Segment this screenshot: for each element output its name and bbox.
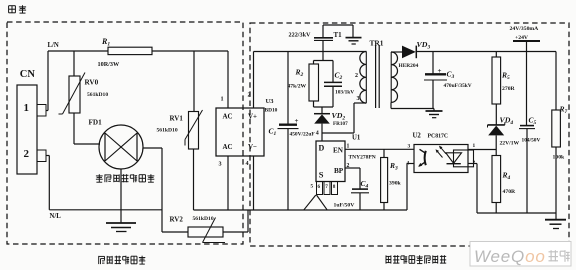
bridge rectifier U3 — [216, 92, 278, 168]
capacitor C2 — [324, 61, 354, 108]
svg-text:BP: BP — [334, 167, 344, 175]
node N/L label — [50, 213, 62, 220]
svg-text:C4: C4 — [361, 179, 369, 190]
svg-text:AC: AC — [223, 113, 233, 121]
svg-text:1: 1 — [347, 144, 350, 150]
svg-text:U3: U3 — [266, 98, 275, 105]
svg-text:V+: V+ — [248, 113, 257, 121]
svg-text:390k: 390k — [389, 181, 402, 187]
ground for FD1 — [106, 169, 136, 232]
svg-text:D: D — [319, 144, 325, 153]
svg-text:C1: C1 — [269, 127, 277, 138]
resistor R1 — [98, 37, 153, 68]
svg-text:103/1kV: 103/1kV — [335, 90, 354, 96]
svg-text:3: 3 — [408, 144, 411, 150]
wire TR1 pin3 to drain node — [322, 103, 366, 133]
svg-text:T1: T1 — [334, 31, 343, 39]
svg-text:V−: V− — [248, 143, 257, 151]
output terminal +24V — [510, 26, 541, 52]
varistor RV0 — [59, 51, 109, 144]
varistor RV2 — [162, 148, 248, 243]
svg-text:N/L: N/L — [50, 213, 62, 220]
svg-text:BD10: BD10 — [265, 108, 278, 114]
svg-text:+: + — [295, 117, 299, 125]
lightning-protection section dashed border box — [7, 22, 243, 244]
svg-text:AC: AC — [223, 143, 233, 151]
svg-text:RV1: RV1 — [170, 115, 184, 123]
svg-text:R7: R7 — [559, 105, 568, 116]
svg-text:450V/22uF: 450V/22uF — [290, 132, 316, 138]
svg-text:VD2: VD2 — [332, 111, 346, 122]
svg-text:8: 8 — [333, 184, 336, 190]
svg-text:4: 4 — [316, 131, 319, 137]
svg-text:5: 5 — [311, 184, 314, 190]
svg-text:561kD10: 561kD10 — [87, 92, 108, 98]
svg-text:104/50V: 104/50V — [522, 138, 541, 144]
wire CN pin2 to N bottom rail — [46, 156, 162, 210]
IC U1 TNY278PN — [316, 135, 376, 182]
wire primary + rail — [254, 51, 367, 53]
svg-text:3: 3 — [219, 161, 222, 168]
svg-text:100k: 100k — [553, 155, 566, 161]
svg-text:R4: R4 — [502, 171, 511, 182]
svg-text:TR1: TR1 — [370, 39, 384, 48]
diode VD3 HER204 — [391, 40, 430, 69]
wire secondary return — [391, 103, 434, 109]
svg-text:24V/350mA: 24V/350mA — [510, 26, 540, 32]
wire opto pin2 drop — [468, 164, 477, 214]
svg-text:PC817C: PC817C — [428, 134, 449, 140]
svg-text:7: 7 — [325, 184, 328, 190]
svg-text:S: S — [319, 170, 324, 180]
switching-supply section dashed border box — [250, 23, 569, 246]
svg-text:RV2: RV2 — [170, 216, 184, 224]
svg-text:VD4: VD4 — [500, 116, 514, 127]
svg-text:HER204: HER204 — [399, 63, 419, 69]
svg-text:C5: C5 — [529, 116, 537, 127]
U1 source fanout wires — [304, 195, 327, 210]
snubber junction wires — [314, 52, 334, 108]
svg-text:222/3kV: 222/3kV — [289, 32, 312, 39]
ground secondary bottom — [545, 213, 566, 229]
svg-text:2: 2 — [248, 92, 251, 99]
svg-text:L/N: L/N — [48, 42, 59, 49]
optocoupler U2 PC817C — [407, 133, 476, 173]
primary bottom rail wire — [194, 209, 408, 211]
svg-text:1: 1 — [221, 96, 224, 103]
wire L top rail — [48, 50, 228, 52]
svg-text:U2: U2 — [413, 133, 422, 140]
svg-text:3: 3 — [357, 96, 360, 102]
U1 source pin stubs 5678 — [311, 182, 338, 195]
svg-text:C2: C2 — [335, 71, 343, 82]
svg-text:CN: CN — [20, 69, 36, 80]
capacitor C4 1uF/50V — [334, 179, 370, 210]
wire bridge pin1 riser — [227, 51, 229, 108]
wire secondary + rail — [416, 51, 556, 53]
resistor R5 270R — [492, 52, 516, 125]
section label 开关电源电路部分 (switching power supply section) — [386, 255, 446, 264]
watermark WeeQoo box — [470, 242, 571, 267]
resistor R3 390k — [381, 149, 402, 210]
svg-text:47k/2W: 47k/2W — [288, 84, 307, 90]
svg-text:TNY278PN: TNY278PN — [349, 154, 376, 160]
wire opto pin4 drop — [407, 164, 414, 211]
svg-text:FR107: FR107 — [333, 121, 348, 127]
svg-text:1: 1 — [24, 102, 30, 114]
svg-text:561kD10: 561kD10 — [157, 128, 178, 134]
U2 LED arrows — [436, 146, 447, 158]
svg-text:EN: EN — [333, 147, 344, 155]
svg-text:22V/1W: 22V/1W — [500, 141, 520, 147]
wire bridge pin4 drop — [253, 156, 255, 210]
wire CN pin1 to L line — [46, 51, 48, 111]
svg-text:WeeQoo: WeeQoo — [474, 247, 546, 266]
pin label 4 of U1 drain — [316, 131, 319, 137]
svg-text:R1: R1 — [101, 37, 110, 48]
earth ground for Y-capacitor — [346, 38, 362, 44]
svg-text:470R: 470R — [503, 189, 517, 195]
wire EN to opto — [345, 148, 414, 150]
svg-text:6: 6 — [318, 184, 321, 190]
title text 附图 (figure label) — [9, 5, 27, 13]
svg-text:+24V: +24V — [515, 35, 529, 41]
svg-text:R5: R5 — [501, 71, 510, 82]
wire BP to C4 — [345, 168, 360, 189]
U2 LED diode — [446, 150, 474, 167]
transformer TR1 — [355, 39, 398, 109]
varistor RV1 — [157, 51, 203, 210]
svg-text:4: 4 — [246, 160, 249, 167]
svg-text:VD3: VD3 — [417, 40, 431, 51]
resistor R2 — [288, 61, 319, 108]
svg-text:1: 1 — [473, 143, 476, 149]
wire opto pin1 to feedback node — [468, 149, 496, 151]
capacitor C5 104/50V — [519, 52, 540, 214]
capacitor C1 450V/22uF — [269, 52, 316, 211]
svg-text:2: 2 — [355, 73, 358, 79]
capacitor C3 470uF/35kV — [424, 52, 472, 109]
wire bridge pin2 riser — [253, 52, 255, 109]
wire bridge pin3 drop — [227, 156, 229, 210]
node L/N label — [48, 42, 59, 49]
svg-text:R2: R2 — [295, 68, 304, 79]
label 陶瓷气体放电管 (ceramic gas discharge tube) — [96, 174, 154, 182]
svg-text:FD1: FD1 — [89, 119, 103, 127]
svg-text:U1: U1 — [352, 135, 361, 142]
resistor R7 100k — [552, 52, 568, 214]
secondary bottom rail — [477, 212, 556, 214]
ground secondary mid — [426, 109, 443, 118]
resistor R4 470R — [492, 150, 516, 214]
svg-text:C3: C3 — [447, 70, 455, 81]
svg-text:RV0: RV0 — [85, 79, 99, 87]
svg-text:1uF/50V: 1uF/50V — [334, 203, 356, 209]
svg-text:2: 2 — [24, 148, 30, 160]
svg-text:R3: R3 — [389, 161, 398, 172]
svg-text:10R/3W: 10R/3W — [98, 61, 120, 68]
zener diode VD4 22V/1W — [488, 116, 520, 150]
gas discharge tube FD1 — [89, 119, 163, 170]
diode VD2 FR107 — [314, 107, 348, 141]
svg-text:470uF/35kV: 470uF/35kV — [444, 83, 472, 89]
U2 phototransistor — [418, 149, 426, 167]
section label 防雷电路部分 (lightning protection section) — [99, 256, 146, 265]
svg-text:+: + — [438, 67, 442, 75]
Y-capacitor 222/3kV with T1 label — [289, 25, 354, 52]
svg-text:561kD10: 561kD10 — [193, 216, 214, 222]
svg-text:270R: 270R — [502, 86, 516, 92]
connector CN — [17, 69, 46, 174]
